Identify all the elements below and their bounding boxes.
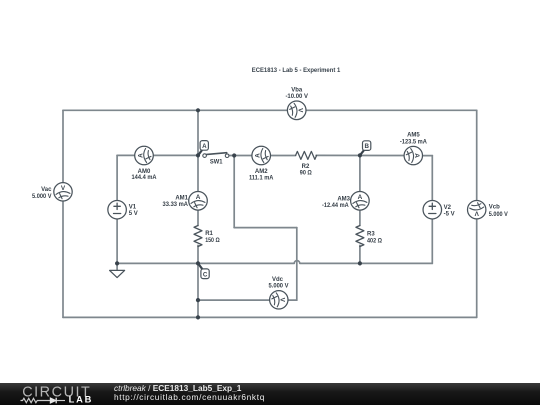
svg-text:111.1 mA: 111.1 mA [249, 175, 274, 181]
bottom bar [0, 383, 540, 405]
switch SW1 [203, 153, 229, 158]
svg-text:V: V [278, 298, 285, 303]
wire Vdc up [296, 228, 298, 301]
voltmeter Vac [54, 183, 72, 201]
wire right side [476, 110, 478, 317]
svg-text:150 Ω: 150 Ω [205, 238, 220, 244]
voltmeter Vcb [468, 201, 486, 219]
svg-text:Vcb: Vcb [489, 205, 500, 211]
wire left side [62, 110, 64, 317]
node C tag [198, 264, 209, 279]
svg-text:C: C [203, 271, 208, 278]
resistor R3 [356, 226, 364, 247]
svg-text:5.000 V: 5.000 V [32, 194, 52, 200]
svg-text:A: A [255, 153, 262, 158]
svg-text:402 Ω: 402 Ω [367, 238, 382, 244]
svg-text:V: V [296, 108, 303, 113]
junction bottom rail [196, 315, 200, 319]
svg-text:Vdc: Vdc [272, 277, 284, 283]
svg-text:-123.5 mA: -123.5 mA [400, 139, 428, 145]
svg-text:144.4 mA: 144.4 mA [132, 175, 158, 181]
svg-text:V1: V1 [129, 205, 137, 211]
svg-text:R2: R2 [302, 164, 310, 170]
svg-text:-5 V: -5 V [444, 211, 455, 217]
ground [110, 270, 125, 277]
resistor R1 [194, 226, 202, 247]
svg-text:AM3: AM3 [337, 196, 350, 202]
svg-text:Vac: Vac [41, 187, 52, 193]
svg-text:5 V: 5 V [129, 211, 138, 217]
svg-text:SW1: SW1 [210, 159, 223, 165]
wire node B down [359, 155, 361, 225]
resistor R2 [296, 151, 317, 159]
ammeter AM3 [351, 192, 370, 211]
svg-text:-12.44 mA: -12.44 mA [322, 203, 349, 209]
junction ground [115, 261, 119, 265]
voltmeter Vba [287, 101, 306, 120]
svg-text:A: A [137, 153, 144, 158]
bar text line 2 [114, 392, 265, 402]
junction node A [196, 153, 200, 157]
wire R2 to AM5 [316, 154, 413, 156]
svg-text:V: V [474, 209, 479, 216]
wire to switch node [233, 156, 235, 228]
CircuitLab logo [18, 384, 98, 405]
junction Vdc left [196, 298, 200, 302]
junction node C [196, 261, 200, 265]
wire Vdc horizontal [198, 299, 297, 301]
svg-text:33.33 mA: 33.33 mA [163, 202, 189, 208]
wire R3 to mid rail [359, 245, 361, 263]
svg-text:R1: R1 [205, 231, 213, 237]
wire R1 to bottom rail [197, 245, 199, 317]
ammeter AM5 [404, 146, 422, 164]
svg-text:A: A [202, 143, 207, 150]
svg-text:AM5: AM5 [407, 132, 420, 138]
wire V2 column [431, 156, 433, 264]
junction top rail [196, 108, 200, 112]
svg-text:AM1: AM1 [175, 196, 188, 202]
voltmeter Vdc [270, 291, 288, 309]
svg-text:ECE1813 - Lab 5 - Experiment 1: ECE1813 - Lab 5 - Experiment 1 [252, 67, 341, 74]
wire V1 branch [116, 155, 118, 263]
wire ground stub [116, 263, 118, 270]
svg-text:V2: V2 [444, 205, 452, 211]
junction node B [358, 153, 362, 157]
node A tag [198, 141, 208, 156]
wire top rail [63, 109, 477, 111]
junction R3 bottom [358, 261, 362, 265]
ammeter AM1 [189, 192, 208, 211]
junction switch right [232, 153, 236, 157]
svg-text:5.000 V: 5.000 V [269, 284, 289, 290]
node B tag [360, 141, 371, 155]
wire AM1 chain upper [197, 155, 199, 225]
wire AM5 to corner [413, 155, 432, 157]
svg-text:LAB: LAB [69, 395, 94, 405]
svg-text:A: A [196, 194, 201, 201]
source V1 [108, 200, 127, 219]
svg-text:Vba: Vba [291, 88, 303, 94]
wire mid rail with hop [117, 261, 432, 264]
svg-text:90 Ω: 90 Ω [300, 171, 312, 177]
svg-text:V: V [61, 185, 66, 192]
svg-text:A: A [358, 194, 363, 201]
wire node A up [197, 110, 199, 155]
ammeter AM2 [252, 146, 271, 165]
svg-text:AM2: AM2 [255, 169, 268, 175]
svg-text:5.000 V: 5.000 V [489, 212, 508, 218]
wire switch to R2 [229, 155, 296, 157]
wire bottom rail [63, 316, 477, 318]
source V2 [423, 200, 442, 219]
wire row AM0 [117, 154, 198, 156]
ammeter AM0 [135, 146, 154, 165]
svg-text:A: A [413, 153, 420, 158]
bar text line 1 [114, 383, 241, 393]
svg-text:B: B [364, 143, 369, 150]
wire cross horizontal [234, 227, 297, 229]
svg-text:-10.00 V: -10.00 V [285, 94, 308, 100]
svg-text:R3: R3 [367, 231, 375, 237]
